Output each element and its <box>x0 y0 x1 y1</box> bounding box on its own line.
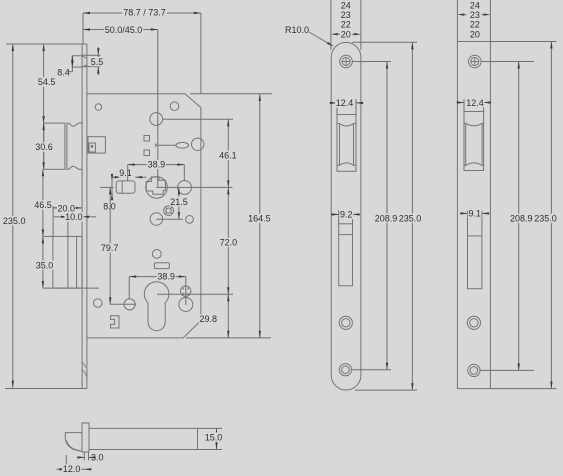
cam circle with notches <box>181 286 191 296</box>
dim 30.6 <box>43 123 45 169</box>
svg-text:12.4: 12.4 <box>336 98 354 108</box>
svg-text:72.0: 72.0 <box>220 238 238 248</box>
extension line deadbolt top <box>43 235 53 237</box>
dim 38.9 upper <box>127 165 129 181</box>
svg-text:8.4: 8.4 <box>57 67 70 77</box>
screw post bottom-left <box>94 299 103 308</box>
svg-text:9.1: 9.1 <box>468 209 481 219</box>
svg-text:235.0: 235.0 <box>399 213 422 223</box>
faceplate square outline <box>457 42 490 389</box>
faceplate screw top <box>340 55 353 68</box>
faceplate rounded outline <box>331 42 361 390</box>
cylinder fixing hole right <box>179 298 193 312</box>
centerline follower horizontal <box>157 186 233 188</box>
dim 15.0 <box>198 427 223 429</box>
dim 9.1 right plate <box>467 211 469 217</box>
extension line top left <box>6 43 82 45</box>
svg-text:30.6: 30.6 <box>35 142 53 152</box>
dim 46.1 <box>227 119 229 187</box>
dim 54.5 <box>43 44 45 123</box>
svg-text:208.9: 208.9 <box>375 213 398 223</box>
extension line cylinder left hole <box>110 303 136 305</box>
dim 164.5 <box>259 94 261 338</box>
svg-text:79.7: 79.7 <box>101 243 119 253</box>
detail lock case strip <box>89 428 198 449</box>
extension line case bottom right <box>186 337 271 339</box>
svg-text:35.0: 35.0 <box>36 260 54 270</box>
extension line dim 78.7 right <box>200 13 202 94</box>
svg-text:235.0: 235.0 <box>534 214 557 224</box>
latch bolt front view <box>339 124 341 166</box>
extension lines overall right <box>490 41 556 43</box>
auxiliary latch tab <box>72 56 87 67</box>
deadbolt (side view) <box>53 236 82 288</box>
lock body faceplate (side view) <box>81 44 83 389</box>
extension line deadbolt bottom <box>43 287 99 289</box>
svg-text:164.5: 164.5 <box>248 214 271 224</box>
dim 208.9 right plate <box>518 62 520 371</box>
dim 3.0 <box>83 452 85 461</box>
detail faceplate section <box>82 423 89 452</box>
faceplate2 screw middle <box>467 316 480 329</box>
latch bolt (side view) <box>44 123 65 169</box>
svg-text:3.0: 3.0 <box>91 453 104 463</box>
small square stop lower <box>144 150 150 156</box>
extension lines screw centers middle <box>353 61 392 63</box>
dim 38.9 lower <box>128 277 130 299</box>
extension lines overall middle <box>352 41 417 43</box>
line through cam to fixing hole <box>185 286 187 305</box>
svg-text:38.9: 38.9 <box>157 271 175 281</box>
width extension lines <box>330 0 332 50</box>
extension line 10.0 <box>67 215 69 237</box>
dim 10.0 <box>68 216 82 218</box>
cylinder fixing hole left <box>124 299 135 310</box>
svg-text:54.5: 54.5 <box>38 77 56 87</box>
dim 12.4 right plate <box>463 99 465 112</box>
dim 35.0 <box>42 236 44 288</box>
svg-text:50.0/45.0: 50.0/45.0 <box>105 25 143 35</box>
dim 12.0 <box>65 455 67 473</box>
extension lines screw centers right <box>481 61 534 63</box>
extension line cylinder center <box>157 293 233 295</box>
dim 12.4 middle plate <box>336 99 338 115</box>
dim 208.9 middle plate <box>386 62 388 370</box>
small hole right <box>186 216 194 224</box>
dim 79.7 <box>109 187 111 304</box>
faceplate2 screw top <box>469 55 482 68</box>
centerline backset <box>157 30 159 188</box>
dim 72.0 <box>227 187 229 294</box>
svg-text:22: 22 <box>341 20 351 30</box>
notched adjuster circle <box>164 206 174 216</box>
hole right of follower <box>178 181 192 195</box>
faceplate latch cutout <box>337 115 356 172</box>
dim 235.0 right plate <box>550 42 552 389</box>
dim 5.5 <box>82 54 100 56</box>
svg-text:12.4: 12.4 <box>466 98 484 108</box>
extension line bottom left <box>5 388 87 390</box>
faceplate break marks <box>82 362 87 377</box>
dim 21.5 <box>178 187 180 219</box>
slot above cylinder <box>154 263 169 269</box>
extension line hole below follower <box>156 218 183 220</box>
svg-text:46.1: 46.1 <box>219 151 237 161</box>
latch bolt front view 2 <box>465 123 467 165</box>
svg-text:78.7 / 73.7: 78.7 / 73.7 <box>123 8 166 18</box>
dim 20.0 <box>53 207 82 209</box>
dim 235.0 overall <box>12 44 14 388</box>
dim 50.0/45.0 <box>83 29 158 31</box>
dim 8.0 <box>111 174 113 200</box>
screw post top-left <box>95 104 102 111</box>
svg-text:235.0: 235.0 <box>3 216 26 226</box>
width extension lines 2 <box>456 0 458 42</box>
dim 9.2 middle plate <box>338 211 340 224</box>
follower with square spindle hole <box>146 177 168 199</box>
faceplate2 latch cutout <box>464 112 484 171</box>
latch guide block <box>88 137 105 153</box>
extension line case top right <box>190 93 272 95</box>
detail latch nose <box>65 433 82 452</box>
dim 8.4 leader <box>71 56 73 72</box>
svg-text:20: 20 <box>341 30 351 40</box>
svg-text:8.0: 8.0 <box>103 201 116 211</box>
retainer bracket <box>111 316 120 328</box>
svg-text:12.0: 12.0 <box>63 464 81 474</box>
faceplate2 screw bottom <box>468 364 480 376</box>
dim 29.8 <box>227 294 229 338</box>
svg-text:R10.0: R10.0 <box>285 25 309 35</box>
extension line dim 78.7 left <box>82 13 84 44</box>
dim 78.7/73.7 <box>83 12 201 14</box>
svg-text:9.1: 9.1 <box>119 168 132 178</box>
euro profile cylinder hole <box>144 282 169 331</box>
faceplate screw bottom <box>339 364 351 376</box>
svg-text:38.9: 38.9 <box>148 160 166 170</box>
small hole above cylinder <box>152 250 161 259</box>
dim 46.5 <box>42 169 44 236</box>
small square stop upper <box>144 136 150 142</box>
svg-text:23: 23 <box>341 10 351 20</box>
dim 235.0 middle plate <box>411 42 413 390</box>
svg-text:29.8: 29.8 <box>200 314 218 324</box>
svg-text:46.5: 46.5 <box>34 200 52 210</box>
spring pin with oval end <box>155 143 157 147</box>
hole below follower <box>150 213 163 226</box>
svg-text:15.0: 15.0 <box>205 432 223 442</box>
faceplate screw middle <box>339 316 352 329</box>
faceplate2 deadbolt cutout <box>468 216 482 289</box>
svg-text:208.9: 208.9 <box>510 214 533 224</box>
case edge circle <box>192 138 204 150</box>
svg-text:22: 22 <box>470 20 480 30</box>
extension line follower left <box>100 186 114 188</box>
lever spring plate <box>116 181 135 193</box>
hub circle <box>150 113 163 126</box>
screw post top-right <box>170 102 179 111</box>
extension line hub <box>163 118 233 120</box>
svg-text:5.5: 5.5 <box>91 57 104 67</box>
lock case outline <box>87 94 201 338</box>
dim 9.1 <box>113 176 122 178</box>
faceplate deadbolt cutout <box>339 224 353 286</box>
svg-text:23: 23 <box>470 10 480 20</box>
svg-text:10.0: 10.0 <box>65 212 83 222</box>
svg-text:9.2: 9.2 <box>340 210 353 220</box>
extension line 20.0 <box>52 206 54 236</box>
svg-text:20: 20 <box>470 30 480 40</box>
svg-text:21.5: 21.5 <box>170 197 188 207</box>
